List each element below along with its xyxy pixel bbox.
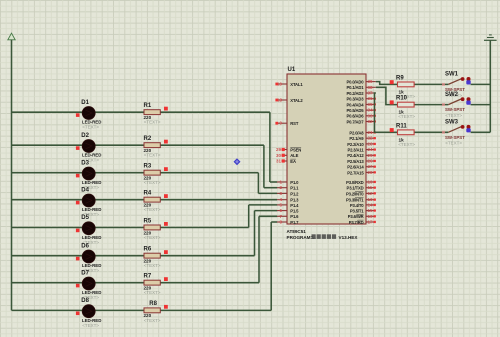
pin 16 P3.6/WR [348, 214, 376, 219]
svg-text:30: 30 [276, 153, 282, 158]
LED D7 (LED-RED) [76, 270, 102, 300]
svg-text:<TEXT>: <TEXT> [82, 125, 99, 130]
pin 2 P1.1 [277, 185, 299, 190]
svg-text:<TEXT>: <TEXT> [445, 113, 462, 118]
op-amp/mcu U1 AT89C51 body [287, 67, 367, 240]
wire R11 to SW3 [414, 131, 448, 133]
svg-text:38: 38 [368, 85, 374, 90]
svg-text:31: 31 [276, 159, 282, 164]
svg-text:27: 27 [368, 164, 374, 169]
svg-text:P1.7: P1.7 [290, 220, 299, 225]
pin 23 P2.2/A10 [347, 141, 376, 146]
svg-text:R1: R1 [144, 103, 152, 109]
svg-text:<TEXT>: <TEXT> [82, 323, 99, 328]
wire row 3: VCC rail to D3/R3 and to P1.2 [12, 173, 278, 194]
svg-text:23: 23 [368, 141, 374, 146]
wire SW1 to ground rail [471, 83, 491, 85]
pin 32 P0.7/AD7 [347, 119, 376, 124]
pin 9 RST [275, 121, 298, 126]
switch SW2 SW-SPST [442, 92, 471, 118]
LED D4 (LED-RED) [76, 187, 102, 217]
svg-text:P0.2/AD2: P0.2/AD2 [347, 91, 365, 96]
LED D5 (LED-RED) [76, 215, 102, 245]
wire ground rail vertical (right bus) [489, 40, 491, 132]
pin 3 P1.2 [277, 191, 299, 196]
svg-text:<TEXT>: <TEXT> [144, 120, 161, 125]
resistor R9 1k [390, 75, 416, 99]
pin 38 P0.1/AD1 [347, 85, 376, 90]
svg-text:24: 24 [368, 147, 374, 152]
svg-text:P0.7/AD7: P0.7/AD7 [347, 119, 365, 124]
svg-text:PSEN: PSEN [290, 147, 301, 152]
resistor R2 220 [144, 136, 168, 158]
svg-text:P1.0: P1.0 [290, 180, 299, 185]
svg-text:R11: R11 [396, 123, 407, 129]
pin 15 P3.5/T1 [350, 208, 376, 213]
resistor R6 220 [144, 247, 168, 269]
pin 7 P1.6 [277, 214, 299, 219]
svg-text:<TEXT>: <TEXT> [144, 207, 161, 212]
svg-text:14: 14 [368, 202, 374, 207]
svg-text:P1.2: P1.2 [290, 191, 299, 196]
svg-text:<TEXT>: <TEXT> [144, 153, 161, 158]
svg-text:<TEXT>: <TEXT> [144, 263, 161, 268]
svg-text:P1.4: P1.4 [290, 203, 299, 208]
svg-text:P0.3/AD3: P0.3/AD3 [347, 97, 365, 102]
switch SW3 SW-SPST [442, 120, 471, 146]
resistor R10 1k [390, 96, 416, 120]
svg-text:P2.2/A10: P2.2/A10 [347, 142, 364, 147]
svg-text:D7: D7 [81, 270, 89, 276]
svg-text:R3: R3 [144, 164, 152, 170]
LED D2 (LED-RED) [76, 133, 102, 163]
svg-text:10: 10 [368, 180, 374, 185]
power terminal VCC (top-left up-arrow) [8, 33, 15, 40]
svg-text:P2.4/A12: P2.4/A12 [347, 153, 364, 158]
svg-text:R4: R4 [144, 191, 152, 197]
svg-text:D3: D3 [81, 160, 89, 166]
LED D6 (LED-RED) [76, 243, 102, 273]
svg-text:P2.3/A11: P2.3/A11 [347, 148, 364, 153]
svg-text:SW-SPST: SW-SPST [445, 107, 465, 112]
resistor R3 220 [144, 164, 168, 186]
wire R10 to SW2 [414, 104, 448, 106]
pin 28 P2.7/A15 [347, 170, 376, 175]
svg-text:<TEXT>: <TEXT> [398, 142, 415, 147]
svg-text:32: 32 [368, 119, 374, 124]
wire P0.2 (pin37) to R11 [375, 93, 398, 132]
pin 8 P1.7 [277, 220, 299, 225]
pin 22 P2.1/A9 [349, 136, 375, 141]
pin 30 ALE [276, 153, 299, 158]
svg-text:36: 36 [368, 96, 374, 101]
wire row 6: VCC rail to D6/R6 and to P1.5 [12, 211, 278, 256]
pin 4 P1.3 [277, 197, 299, 202]
svg-text:P3.5/T1: P3.5/T1 [350, 209, 364, 214]
svg-text:D1: D1 [81, 100, 89, 106]
wire row 8: VCC rail to D8/R8 and to P1.7 [12, 222, 278, 310]
wire SW2 to ground rail [471, 104, 491, 106]
svg-text:<TEXT>: <TEXT> [445, 141, 462, 146]
svg-text:D2: D2 [81, 133, 89, 139]
svg-text:D4: D4 [81, 187, 89, 193]
pin 18 XTAL2 [275, 98, 303, 103]
wire row 7: VCC rail to D7/R7 and to P1.6 [12, 216, 278, 282]
svg-text:<TEXT>: <TEXT> [144, 180, 161, 185]
wire VCC rail vertical (left bus) [11, 40, 13, 311]
pin 5 P1.4 [277, 202, 299, 207]
LED D8 (LED-RED) [76, 298, 102, 328]
svg-text:P3.1/TXD: P3.1/TXD [347, 186, 364, 191]
svg-text:R8: R8 [149, 301, 157, 307]
resistor R4 220 [144, 191, 168, 213]
pin 25 P2.4/A12 [347, 153, 376, 158]
pin 37 P0.2/AD2 [347, 91, 376, 96]
wire row 5: VCC rail to D5/R5 and to P1.4 [12, 205, 278, 228]
pin 12 P3.2/INT0 [346, 191, 376, 196]
svg-text:AT89C51: AT89C51 [287, 229, 307, 234]
resistor R11 1k [390, 123, 416, 147]
svg-text:R2: R2 [144, 136, 152, 142]
svg-text:22: 22 [368, 136, 374, 141]
svg-text:D8: D8 [81, 298, 89, 304]
svg-text:R7: R7 [144, 274, 152, 280]
svg-text:26: 26 [368, 159, 374, 164]
svg-text:P3.4/T0: P3.4/T0 [350, 203, 364, 208]
svg-text:P3.2/INT0: P3.2/INT0 [346, 191, 364, 196]
resistor R5 220 [144, 218, 168, 240]
svg-text:<TEXT>: <TEXT> [144, 318, 161, 323]
pin 14 P3.4/T0 [350, 202, 376, 207]
svg-text:P0.6/AD6: P0.6/AD6 [347, 114, 365, 119]
wire row 1: VCC rail to D1/R1 and to P1.0 [12, 112, 278, 182]
svg-text:P0.0/AD0: P0.0/AD0 [347, 80, 365, 85]
svg-text:R6: R6 [144, 247, 152, 253]
svg-text:16: 16 [368, 214, 374, 219]
pin 33 P0.6/AD6 [347, 113, 376, 118]
pin 36 P0.3/AD3 [347, 96, 376, 101]
svg-text:P3.6/WR: P3.6/WR [348, 214, 364, 219]
svg-text:SW2: SW2 [445, 92, 459, 98]
svg-text:V13.HEX: V13.HEX [339, 235, 359, 240]
svg-text:P0.5/AD5: P0.5/AD5 [347, 108, 365, 113]
svg-text:12: 12 [368, 191, 374, 196]
svg-text:21: 21 [368, 130, 374, 135]
LED D3 (LED-RED) [76, 160, 102, 190]
switch SW1 SW-SPST [442, 72, 471, 98]
pin 13 P3.3/INT1 [346, 197, 376, 202]
svg-text:SW1: SW1 [445, 72, 459, 78]
svg-text:33: 33 [368, 113, 374, 118]
resistor R1 220 [144, 103, 168, 125]
svg-text:R10: R10 [396, 96, 408, 102]
svg-text:P2.5/A13: P2.5/A13 [347, 159, 364, 164]
svg-text:28: 28 [368, 170, 374, 175]
svg-text:P1.6: P1.6 [290, 214, 299, 219]
svg-text:P0.4/AD4: P0.4/AD4 [347, 102, 365, 107]
pin 1 P1.0 [277, 180, 299, 185]
svg-text:29: 29 [276, 147, 282, 152]
pin 31 EA [276, 159, 296, 164]
svg-text:<TEXT>: <TEXT> [398, 114, 415, 119]
svg-text:34: 34 [368, 108, 374, 113]
svg-text:<TEXT>: <TEXT> [144, 290, 161, 295]
wire row 2: VCC rail to D2/R2 and to P1.1 [12, 145, 278, 188]
svg-text:P1.1: P1.1 [290, 186, 299, 191]
resistor R7 220 [144, 274, 168, 296]
svg-text:P3.0/RXD: P3.0/RXD [346, 180, 364, 185]
svg-text:P2.6/A14: P2.6/A14 [347, 165, 364, 170]
svg-text:SW-SPST: SW-SPST [445, 135, 465, 140]
svg-text:P3.7/RD: P3.7/RD [349, 220, 364, 225]
pin 29 PSEN [276, 147, 301, 152]
wire P0.0 (pin39) to R9 [376, 82, 398, 85]
svg-text:U1: U1 [288, 67, 296, 73]
svg-text:18: 18 [277, 98, 283, 103]
svg-text:P1.5: P1.5 [290, 209, 299, 214]
svg-text:11: 11 [368, 185, 373, 190]
svg-text:EA: EA [290, 159, 296, 164]
svg-text:37: 37 [368, 91, 374, 96]
svg-text:19: 19 [277, 82, 283, 87]
resistor R8 220 [144, 301, 168, 323]
pin 11 P3.1/TXD [347, 185, 376, 190]
wire SW3 to ground rail [471, 131, 491, 133]
svg-text:P2.7/A15: P2.7/A15 [347, 170, 364, 175]
ground [484, 35, 497, 40]
svg-text:PROGRAM=..: PROGRAM=.. [287, 235, 316, 240]
svg-text:RST: RST [290, 121, 299, 126]
svg-text:D5: D5 [81, 215, 89, 221]
pin 35 P0.4/AD4 [347, 102, 376, 107]
svg-text:39: 39 [368, 79, 374, 84]
wire R9 to SW1 [414, 83, 448, 85]
svg-text:17: 17 [368, 220, 374, 225]
svg-text:25: 25 [368, 153, 374, 158]
svg-text:P0.1/AD1: P0.1/AD1 [347, 85, 365, 90]
pin 21 P2.0/A8 [349, 130, 375, 135]
pin 17 P3.7/RD [349, 220, 376, 225]
pin 10 P3.0/RXD [346, 180, 376, 185]
svg-text:XTAL1: XTAL1 [290, 82, 303, 87]
svg-text:<TEXT>: <TEXT> [144, 235, 161, 240]
svg-text:D6: D6 [81, 243, 89, 249]
svg-text:P2.1/A9: P2.1/A9 [349, 136, 364, 141]
svg-text:15: 15 [368, 208, 374, 213]
pin 19 XTAL1 [275, 82, 303, 87]
svg-text:P2.0/A8: P2.0/A8 [349, 130, 364, 135]
pin 6 P1.5 [277, 208, 299, 213]
svg-text:35: 35 [368, 102, 374, 107]
pin 34 P0.5/AD5 [347, 108, 376, 113]
pin 26 P2.5/A13 [347, 159, 376, 164]
svg-text:ALE: ALE [290, 153, 298, 158]
wire P0.1 (pin38) to R10 [376, 87, 398, 104]
LED D1 (LED-RED) [76, 100, 102, 130]
svg-text:SW3: SW3 [445, 120, 459, 126]
pin 24 P2.3/A11 [347, 147, 375, 152]
wire row 4: VCC rail to D4/R4 and to P1.3 [12, 199, 278, 201]
pin 39 P0.0/AD0 [347, 79, 376, 84]
svg-text:R5: R5 [144, 218, 152, 224]
node origin marker (blue diamond) [234, 158, 241, 165]
pin 27 P2.6/A14 [347, 164, 376, 169]
svg-text:XTAL2: XTAL2 [290, 98, 303, 103]
svg-text:R9: R9 [396, 75, 404, 81]
